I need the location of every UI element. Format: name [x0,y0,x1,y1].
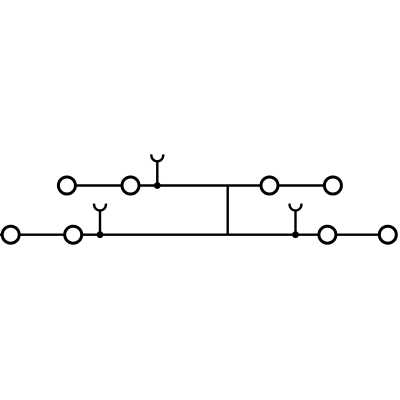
terminal 1 upper-left clamp circle [58,177,75,194]
wire upper rail [67,184,333,186]
test socket TP1 on upper rail [151,154,163,185]
terminal 5 lower-left clamp circle [2,226,19,243]
wire lower rail [0,233,388,235]
terminal 3 upper clamp circle [261,177,278,194]
node junction lower-right [292,231,299,238]
terminal 2 upper clamp circle [122,177,139,194]
node junction on upper rail [154,182,161,189]
terminal 6 lower clamp circle [65,226,82,243]
wire cross-connection bridge [226,186,228,235]
terminal 7 lower clamp circle [319,226,336,243]
terminal 8 lower-right clamp circle [379,226,396,243]
test socket TP3 on lower rail right [290,204,302,235]
node junction lower-left [97,231,104,238]
test socket TP2 on lower rail left [94,204,106,235]
terminal 4 upper-right clamp circle [324,177,341,194]
